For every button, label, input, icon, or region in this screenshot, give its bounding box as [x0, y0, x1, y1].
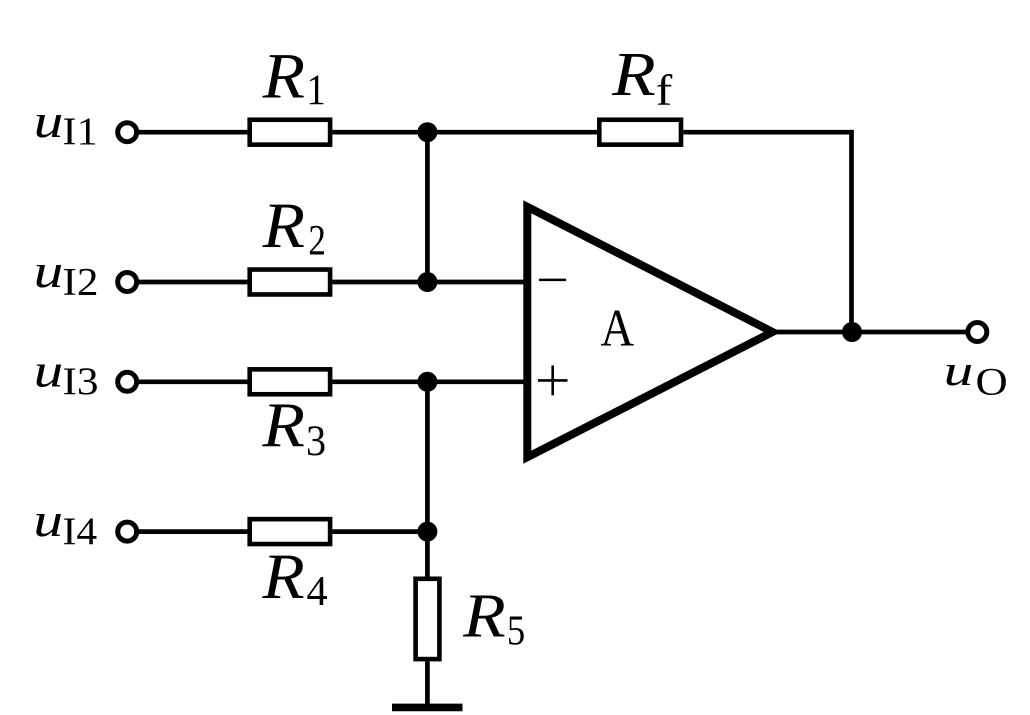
wire: u_I1 terminal to R1	[139, 130, 249, 135]
wire: R5 to ground	[425, 662, 430, 706]
terminal u_I4	[118, 522, 137, 541]
svg-text:I1: I1	[63, 111, 98, 153]
wire: op-amp output to terminal	[770, 330, 966, 335]
wire: bus node A1 to A2 (inverting bus)	[425, 132, 430, 282]
svg-text:R: R	[462, 581, 506, 651]
svg-text:u: u	[34, 345, 64, 398]
junction node output	[842, 322, 862, 342]
wire: R4 to node B2	[332, 529, 427, 534]
wire: Rf to feedback corner	[683, 130, 851, 135]
resistor R5	[416, 579, 440, 659]
svg-text:4: 4	[306, 568, 327, 615]
wire: node B2 down to R5	[425, 532, 430, 579]
svg-text:u: u	[34, 245, 64, 298]
wire: u_I2 terminal to R2	[139, 280, 249, 285]
svg-text:I4: I4	[63, 511, 98, 553]
svg-text:u: u	[34, 95, 64, 148]
label R4	[261, 541, 327, 615]
label R1	[262, 41, 326, 115]
resistor R2	[250, 270, 330, 295]
svg-text:f: f	[656, 68, 673, 115]
junction node B1	[417, 372, 437, 392]
wire: u_I4 terminal to R4	[139, 529, 249, 534]
svg-text:I3: I3	[63, 361, 99, 403]
junction node B2	[417, 522, 437, 542]
junction node A2	[417, 272, 437, 292]
node label u_I4	[33, 494, 97, 553]
resistor R3	[250, 369, 330, 394]
svg-text:R: R	[611, 41, 656, 109]
op-amp inverting input sign (minus)	[539, 279, 566, 282]
ground	[392, 704, 463, 712]
label R2	[262, 190, 326, 264]
terminal u_I3	[118, 372, 137, 391]
terminal u_I1	[118, 123, 137, 142]
op-amp non-inverting input sign (plus)	[538, 366, 568, 396]
terminal u_I2	[118, 273, 137, 292]
wire: R1 to node A1	[332, 130, 427, 135]
terminal u_O	[968, 323, 987, 342]
wire: R3 to non-inverting input	[332, 379, 527, 384]
wire: feedback corner down to output node	[849, 130, 854, 332]
node label u_I3	[34, 345, 99, 403]
svg-text:R: R	[262, 41, 305, 112]
node label u_I1	[34, 95, 98, 153]
svg-text:5: 5	[507, 608, 525, 655]
junction node A1	[417, 122, 437, 142]
svg-text:3: 3	[306, 418, 326, 465]
node label u_O	[944, 347, 1008, 404]
svg-text:R: R	[262, 190, 305, 261]
svg-text:I2: I2	[63, 261, 99, 303]
wire: bus node B1 to B2 (non-inverting bus)	[425, 382, 430, 532]
resistor R4	[250, 519, 330, 544]
label R5	[462, 581, 525, 655]
svg-text:2: 2	[308, 217, 326, 264]
wire: feedback from node A1 to Rf	[427, 130, 599, 135]
svg-text:R: R	[261, 541, 304, 613]
label Rf	[611, 41, 673, 115]
svg-text:u: u	[33, 494, 63, 547]
label R3	[261, 390, 326, 465]
node label u_I2	[34, 245, 99, 304]
op-amp U1 triangle	[527, 207, 772, 457]
svg-text:1: 1	[306, 67, 325, 114]
svg-text:O: O	[976, 360, 1008, 404]
svg-text:u: u	[944, 347, 974, 395]
wire: R2 to inverting input	[332, 280, 527, 285]
wire: u_I3 terminal to R3	[139, 379, 249, 384]
resistor Rf	[599, 120, 681, 145]
svg-text:A: A	[601, 299, 635, 358]
resistor R1	[250, 120, 330, 145]
svg-text:R: R	[261, 390, 305, 460]
